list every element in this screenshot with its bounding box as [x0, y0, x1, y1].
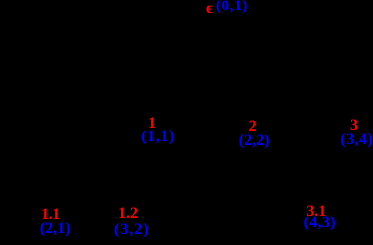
node 2 red label	[249, 119, 257, 135]
node 2 blue pair (2,2)	[239, 133, 270, 149]
node 1 blue pair (1,1)	[141, 129, 175, 145]
node 1.2 blue pair (3,2)	[114, 222, 150, 238]
node 3 blue pair (3,4)	[340, 132, 373, 148]
node 3 red label	[350, 118, 358, 134]
node eps (root) red label	[206, 1, 213, 17]
node 1.2 red label	[118, 206, 138, 222]
node 1.1 blue pair (2,1)	[40, 221, 71, 237]
node 1 red label	[148, 116, 156, 132]
node 3.1 blue pair (4,3)	[304, 215, 336, 231]
node 3.1 red label	[306, 204, 326, 220]
node eps blue pair (0,1)	[216, 0, 248, 14]
node 1.1 red label	[41, 207, 60, 223]
